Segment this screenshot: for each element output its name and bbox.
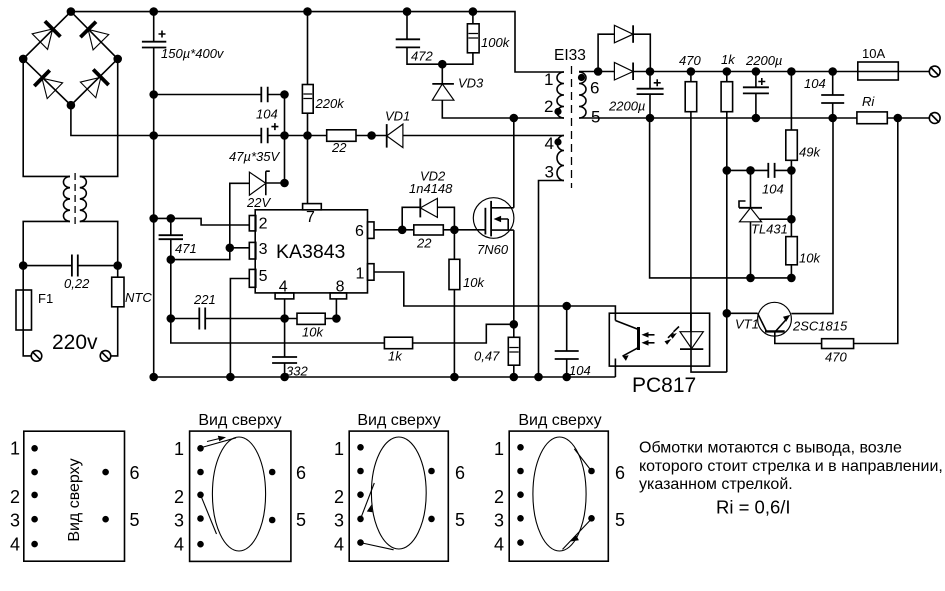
resistor 22 (VCC series) [285, 130, 387, 155]
diode VD1 [385, 109, 410, 148]
svg-text:5: 5 [259, 268, 268, 285]
svg-text:1: 1 [544, 70, 553, 89]
wire: bridge diamond edges [23, 12, 118, 106]
resistor 0,47 (shunt) [474, 324, 520, 377]
node: 104 to VCC vertical [281, 91, 288, 98]
diode bridge D4 triangle [80, 77, 101, 98]
svg-text:2: 2 [259, 216, 268, 233]
wire: secondary ground to TL431 anode [650, 118, 792, 278]
node: 104 bottom at - rail [829, 115, 836, 122]
svg-text:1: 1 [174, 439, 184, 459]
LED of PC817 [680, 313, 727, 372]
svg-text:5: 5 [591, 108, 600, 127]
box4 pin labels [494, 439, 625, 555]
inductor line-filter left winding [63, 176, 70, 221]
svg-text:1: 1 [10, 439, 20, 459]
svg-text:0,47: 0,47 [474, 349, 500, 364]
diode bridge D3 (left-bottom edge) cathode bar [34, 70, 49, 86]
svg-text:2: 2 [10, 487, 20, 507]
wire: VCC node vertical x=284.5 [284, 95, 286, 184]
node: 470 top at + rail [687, 68, 694, 75]
svg-text:150µ*400v: 150µ*400v [161, 46, 225, 61]
svg-text:VD1: VD1 [385, 109, 410, 124]
winding diagram box 2 [190, 412, 291, 561]
node: 47u to VCC vertical [281, 132, 288, 139]
node: top rail junction at 220k [304, 8, 311, 15]
wire: pin5 lead to output minus rail [579, 117, 650, 119]
resistor Ri (shunt) [857, 94, 887, 124]
svg-text:TL431: TL431 [751, 222, 788, 237]
wire: output - rail [650, 117, 930, 119]
svg-text:4: 4 [174, 535, 184, 555]
svg-text:6: 6 [355, 223, 364, 240]
resistor 10k (pin4-pin8) [285, 313, 337, 339]
winding diagram box 4 [509, 412, 608, 561]
wire: VD1 to transformer pin4 [403, 135, 564, 137]
svg-text:2: 2 [494, 487, 504, 507]
shunt regulator TL431 [739, 170, 791, 278]
node: pin3 line at ground rail [535, 374, 542, 381]
svg-text:1: 1 [494, 439, 504, 459]
node: 2200u bottom / minus rail [647, 115, 654, 122]
pin 3 tab of KA3843 [249, 241, 267, 259]
svg-text:1k: 1k [721, 52, 736, 67]
diode bridge D2 (top-right edge) cathode bar [80, 22, 96, 38]
svg-text:0,22: 0,22 [64, 276, 90, 291]
svg-text:1: 1 [356, 266, 365, 283]
inductor line-filter right winding [80, 176, 87, 221]
node: 1k top at + rail [723, 68, 730, 75]
svg-text:4: 4 [10, 535, 20, 555]
wire: pin3 to ground rail [539, 181, 565, 378]
wire: left GND rail (lower segment) [153, 48, 155, 378]
svg-text:2200µ: 2200µ [745, 53, 782, 68]
capacitor 332 [272, 357, 308, 379]
node: 471 vertical at 221 line [167, 315, 174, 322]
svg-text:F1: F1 [38, 291, 53, 306]
wire: IC pin4 down [284, 299, 286, 357]
wire: divider mid line [727, 169, 792, 171]
node: 104 top at + rail [829, 68, 836, 75]
svg-text:Обмотки мотаются с вывода, воз: Обмотки мотаются с вывода, возле [639, 440, 902, 457]
svg-text:2SC1815: 2SC1815 [792, 319, 848, 334]
node: top rail junction at left rail [150, 8, 157, 15]
svg-text:Ri: Ri [862, 94, 875, 109]
svg-text:221: 221 [193, 292, 216, 307]
diode bridge D1 triangle [32, 29, 52, 49]
diode bridge D2 triangle [88, 29, 109, 49]
terminal: mains right [100, 351, 111, 362]
node: pin2/drain junction [510, 115, 517, 122]
node: shunt at ground rail [510, 374, 517, 381]
resistor 10k (gate-source) [449, 230, 485, 377]
node: LED cathode / VT1 base line [723, 310, 730, 317]
capacitor 104 (pin1 to ground) [555, 306, 591, 378]
node: TL431 cathode at divider line [747, 167, 754, 174]
svg-text:104: 104 [569, 363, 591, 378]
diode VD2 1n4148 (gate) [402, 169, 454, 230]
svg-text:220v: 220v [52, 331, 98, 354]
box4 pin dots right column [588, 468, 595, 522]
capacitor 2200u (second) [743, 53, 783, 118]
wire: drain rail to transformer pin2 [514, 117, 564, 119]
node: pin4 node [281, 315, 288, 322]
terminal: output - [929, 113, 940, 124]
node: 2200u-2 top [752, 68, 759, 75]
svg-text:8: 8 [336, 279, 345, 296]
node: bridge AC right [114, 55, 121, 62]
svg-text:Вид сверху: Вид сверху [198, 412, 281, 429]
wire: bridge minus down and right to left rail [71, 105, 154, 135]
node: pin5 line at ground rail [227, 374, 234, 381]
wire: pin3 stub [230, 247, 249, 249]
svg-text:470: 470 [825, 350, 847, 365]
pin 6 tab of KA3843 [355, 222, 374, 240]
wire: filter left winding bottom to node [23, 221, 70, 265]
wire: pin6 lead [579, 71, 598, 73]
svg-text:которого стоит стрелка и в нап: которого стоит стрелка и в направлении, [639, 458, 943, 475]
wire: left GND rail (upper segment above 150u cap) [153, 12, 155, 42]
svg-text:3: 3 [545, 163, 554, 182]
svg-text:220k: 220k [315, 96, 346, 111]
svg-text:49k: 49k [799, 145, 821, 160]
wire: IC pin1 to optocoupler [374, 272, 615, 321]
box1 pin labels [10, 439, 140, 555]
resistor 22 (gate) [414, 225, 486, 251]
fuse F1 [16, 266, 53, 356]
transformer secondary winding (pins 6-5) [579, 72, 586, 118]
capacitor 2200u (first) [608, 72, 664, 119]
svg-text:4: 4 [545, 134, 554, 153]
capacitor 471 [159, 218, 385, 343]
svg-text:2: 2 [544, 97, 553, 116]
svg-text:NTC: NTC [125, 290, 152, 305]
node: snubber junction [439, 61, 446, 68]
node: 49k top at + rail [788, 68, 795, 75]
node: pin2 line at 471 [167, 215, 174, 222]
capacitor 150u*400v [142, 31, 225, 62]
optocoupler U2 PC817 body [609, 313, 709, 397]
svg-text:3: 3 [259, 241, 268, 258]
svg-text:Вид сверху: Вид сверху [518, 412, 601, 429]
node: gate node [451, 226, 458, 233]
capacitor 47u*35V (VCC) [154, 123, 285, 164]
svg-text:472: 472 [411, 49, 433, 64]
zener 22V [171, 171, 285, 259]
box4 pin dots left column [517, 444, 524, 546]
svg-text:2: 2 [174, 487, 184, 507]
thermistor NTC [111, 266, 153, 356]
wire: IC pin5 to ground [230, 279, 249, 378]
svg-text:100k: 100k [481, 35, 511, 50]
svg-text:5: 5 [615, 510, 625, 530]
node: bridge + output (top) [67, 8, 74, 15]
svg-text:5: 5 [130, 510, 140, 530]
box2 pin dots left column [197, 445, 204, 548]
svg-text:10A: 10A [862, 46, 885, 61]
resistor 470 (VT1 collector) [822, 118, 898, 365]
svg-text:PC817: PC817 [632, 374, 696, 397]
node: left rail junction at VCC line [150, 132, 157, 139]
svg-text:3: 3 [334, 511, 344, 531]
svg-text:470: 470 [679, 53, 701, 68]
pin 2 tab of KA3843 [249, 216, 267, 233]
svg-text:Вид сверху: Вид сверху [66, 458, 83, 541]
svg-text:6: 6 [455, 463, 465, 483]
svg-text:1n4148: 1n4148 [409, 181, 453, 196]
transistor VT1 2SC1815 [727, 118, 848, 344]
svg-text:указанном стрелкой.: указанном стрелкой. [639, 476, 793, 493]
node: 332 at ground rail [281, 374, 288, 381]
line filter core [74, 173, 76, 225]
svg-text:332: 332 [286, 364, 308, 379]
pin 7 tab of KA3843 [303, 204, 322, 226]
capacitor 0,22 across mains [23, 255, 118, 292]
svg-text:KA3843: KA3843 [276, 241, 345, 263]
svg-text:1k: 1k [388, 349, 403, 364]
node: bridge AC left [20, 55, 27, 62]
diode bridge D4 (bottom-right edge) cathode bar [93, 69, 108, 85]
svg-text:4: 4 [494, 535, 504, 555]
svg-text:4: 4 [279, 279, 288, 296]
svg-text:22V: 22V [246, 195, 271, 210]
pin 1 tab of KA3843 [356, 264, 375, 283]
node: zener line at pin3 [226, 244, 233, 251]
node: VCC line at 220k/pin7 [304, 132, 311, 139]
node: 22 to VD1 [368, 132, 375, 139]
node: top rail junction at 100k [469, 8, 476, 15]
svg-text:7: 7 [306, 209, 315, 226]
resistor 470 (LED feed) [679, 53, 701, 332]
node: 2200u-2 bottom [752, 115, 759, 122]
node: pin6 line at VD2 branch [399, 226, 406, 233]
svg-text:1: 1 [334, 439, 344, 459]
node: rectifier output / 2200u top [647, 68, 654, 75]
node: bridge - output (bottom) [67, 102, 74, 109]
box2 pin labels [174, 439, 306, 555]
box3 pin labels [334, 439, 465, 555]
node: top rail junction at 472 [404, 8, 411, 15]
winding diagram box 3 [349, 412, 448, 561]
svg-text:10k: 10k [302, 325, 324, 340]
svg-text:Вид сверху: Вид сверху [357, 412, 440, 429]
resistor 1k (current sense) [384, 324, 513, 363]
wire: filter right winding bottom to node [80, 221, 118, 265]
transistor Q1 7N60 MOSFET [473, 118, 514, 324]
svg-text:EI33: EI33 [554, 47, 586, 64]
svg-text:6: 6 [590, 79, 599, 98]
node: input left [20, 262, 27, 269]
light arrows inside PC817 [665, 327, 680, 345]
node: input right [114, 262, 121, 269]
box3 pin dots right column [428, 468, 435, 523]
node: pin6 / rectifier junction [595, 68, 602, 75]
resistor 100k (snubber) [442, 12, 510, 65]
node: TL431 ref [788, 216, 795, 223]
wire: bridge AC right down to line filter [80, 59, 118, 176]
capacitor 221 [171, 292, 285, 330]
resistor 49k (divider) [786, 72, 822, 237]
node: 10k at ground rail [451, 374, 458, 381]
box1 pin dots right column [102, 469, 109, 523]
svg-text:6: 6 [615, 463, 625, 483]
wire: IC pin6 gate drive [374, 229, 414, 231]
node: 1k at divider line [723, 167, 730, 174]
svg-text:VD3: VD3 [458, 76, 484, 91]
node: 104 at ground rail [563, 374, 570, 381]
svg-text:7N60: 7N60 [477, 242, 509, 257]
capacitor 104 (VCC bypass) [154, 87, 285, 122]
wire: primary ground bottom rail [154, 376, 616, 378]
transformer primary winding (pins 1-2) [557, 72, 564, 118]
capacitor 472 (snubber) [396, 12, 443, 65]
box1 pin dots left column [31, 445, 38, 547]
svg-text:22: 22 [331, 140, 347, 155]
node: MOSFET source / current sense [510, 321, 517, 328]
note text about windings [639, 440, 943, 494]
svg-text:2: 2 [334, 487, 344, 507]
capacitor 104 (output) [804, 72, 844, 119]
svg-text:471: 471 [175, 241, 197, 256]
node: pin8 node [333, 315, 340, 322]
resistor 10k (divider lower) [786, 237, 822, 278]
svg-text:5: 5 [455, 510, 465, 530]
svg-text:47µ*35V: 47µ*35V [229, 149, 280, 164]
svg-text:3: 3 [494, 511, 504, 531]
transformer core [571, 66, 573, 188]
fuse 10A [858, 46, 899, 80]
node: 49k bottom [788, 167, 795, 174]
node: left rail junction at pin2 line [150, 215, 157, 222]
phototransistor of PC817 [615, 321, 638, 378]
node: left rail junction at 104 line [150, 91, 157, 98]
node: 471 bottom at zener line [167, 256, 174, 263]
wire: bridge AC left down to line filter [23, 59, 70, 176]
pin 4 tab of KA3843 [275, 279, 294, 299]
svg-text:3: 3 [174, 511, 184, 531]
svg-text:Ri = 0,6/I: Ri = 0,6/I [716, 497, 791, 518]
wire: feedback line to IC pin2 [154, 218, 250, 225]
capacitor 104 (feedback) [762, 163, 784, 197]
svg-text:104: 104 [762, 182, 784, 197]
svg-text:3: 3 [10, 511, 20, 531]
diode rectifier top (parallel pair) [598, 25, 650, 71]
resistor 220k (startup) [302, 12, 345, 204]
box2 pin dots right column [269, 469, 276, 524]
node: left rail meets ground rail [150, 374, 157, 381]
svg-text:4: 4 [334, 535, 344, 555]
terminal: output + [929, 66, 940, 77]
box3 pin dots left column [357, 444, 364, 546]
node: 10k bottom [788, 274, 795, 281]
resistor 1k (TL431 feed) [721, 52, 736, 372]
diode bridge D3 triangle [42, 78, 63, 98]
op-amp U1 KA3843 PWM controller body [255, 210, 367, 293]
svg-text:104: 104 [256, 107, 278, 122]
terminal: mains left [31, 351, 42, 362]
svg-text:22: 22 [416, 236, 432, 251]
svg-text:104: 104 [804, 76, 826, 91]
arrows into phototransistor base [642, 332, 655, 346]
svg-text:2200µ: 2200µ [608, 99, 645, 114]
svg-text:5: 5 [296, 510, 306, 530]
svg-text:10k: 10k [799, 251, 821, 266]
svg-text:10k: 10k [463, 275, 485, 290]
node: zener cathode at VCC vertical [281, 180, 288, 187]
winding diagram box 1 [24, 431, 125, 561]
node: Ri output / VT1 sense [894, 115, 901, 122]
polarity dot pin4 [555, 139, 561, 145]
polarity dot pin2 [555, 109, 561, 115]
pin 8 tab of KA3843 [330, 279, 347, 299]
svg-text:6: 6 [296, 463, 306, 483]
diode bridge D1 (left-top edge) cathode bar [45, 21, 61, 37]
wire: output + rail [650, 71, 929, 73]
node: pin1 line at 104 cap [563, 303, 570, 310]
diode VD3 (clamp) [432, 64, 514, 118]
polarity dot pin6 [579, 75, 585, 81]
transformer aux winding (pins 4-3) [557, 136, 564, 181]
diode rectifier bottom (parallel pair) [598, 63, 650, 81]
svg-text:VT1: VT1 [735, 317, 759, 332]
svg-text:6: 6 [130, 463, 140, 483]
pin 5 tab of KA3843 [249, 268, 267, 287]
wire: IC pin8 down [335, 299, 337, 319]
wire: +310V top rail from bridge to transformer pin1 [71, 12, 564, 72]
node: TL431 anode [747, 274, 754, 281]
